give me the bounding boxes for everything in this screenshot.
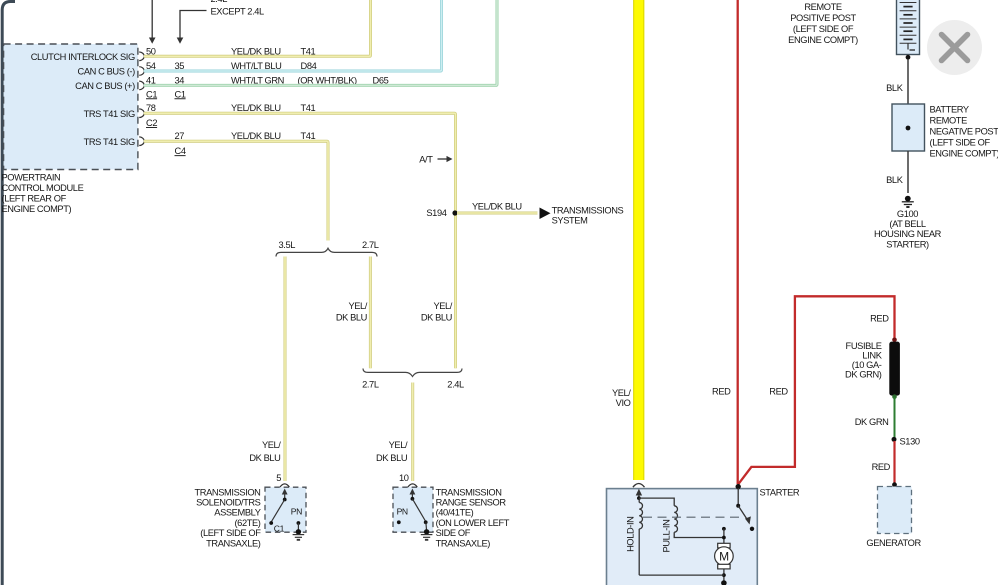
wire DK GRN xyxy=(894,397,896,438)
svg-text:TRANSAXLE): TRANSAXLE) xyxy=(436,538,491,548)
svg-text:CLUTCH INTERLOCK SIG: CLUTCH INTERLOCK SIG xyxy=(31,52,135,62)
svg-text:(LEFT SIDE OF: (LEFT SIDE OF xyxy=(930,137,991,147)
wire YEL/DK BLU pin 50 xyxy=(144,0,371,56)
PCM signal labels xyxy=(31,52,135,147)
svg-text:DK GRN): DK GRN) xyxy=(845,369,882,379)
label YEL/DK BLU to range sensor xyxy=(376,440,408,463)
wire RED to generator xyxy=(893,441,895,484)
svg-text:BATTERY: BATTERY xyxy=(930,104,969,114)
brace merge 2.7L/2.4L xyxy=(363,369,462,377)
PCM pin numbers xyxy=(146,46,186,156)
connector arc starter xyxy=(633,484,645,488)
linkage dashed xyxy=(643,516,740,518)
ground G100 xyxy=(902,196,914,207)
solenoid ground xyxy=(293,521,305,540)
svg-text:VIO: VIO xyxy=(616,398,631,408)
svg-text:GENERATOR: GENERATOR xyxy=(866,538,921,548)
arrow wire 2.4L xyxy=(149,0,156,44)
close button xyxy=(927,20,982,75)
svg-text:CAN C BUS (-): CAN C BUS (-) xyxy=(78,67,136,77)
label YEL/DK BLU branch right xyxy=(421,301,453,322)
svg-text:EXCEPT 2.4L: EXCEPT 2.4L xyxy=(211,6,265,16)
battery remote positive post xyxy=(897,0,920,60)
pull-in coil xyxy=(674,506,724,538)
PCM box xyxy=(4,44,138,170)
brace split 3.5L/2.7L xyxy=(276,248,377,256)
svg-text:RED: RED xyxy=(712,386,731,396)
node S130 xyxy=(892,436,920,446)
label YEL/VIO xyxy=(612,388,631,408)
svg-text:REMOTE: REMOTE xyxy=(804,2,842,12)
label G100 xyxy=(874,209,942,250)
svg-text:TRANSMISSION: TRANSMISSION xyxy=(436,487,502,497)
solenoid switch xyxy=(269,489,287,525)
svg-text:REMOTE: REMOTE xyxy=(930,115,968,125)
label battery remote negative post xyxy=(930,104,998,158)
svg-text:C4: C4 xyxy=(175,146,186,156)
svg-text:(AT BELL: (AT BELL xyxy=(889,219,925,229)
svg-text:ENGINE COMPT): ENGINE COMPT) xyxy=(930,148,998,158)
svg-text:YEL/: YEL/ xyxy=(612,388,631,398)
svg-text:5: 5 xyxy=(276,473,281,483)
svg-text:(62TE): (62TE) xyxy=(234,518,260,528)
starter switch xyxy=(736,484,755,531)
svg-text:A/T: A/T xyxy=(419,155,433,165)
range sensor ground xyxy=(421,522,433,540)
svg-text:RED: RED xyxy=(769,386,788,396)
svg-text:G100: G100 xyxy=(897,209,918,219)
transmission range sensor box xyxy=(393,487,433,532)
svg-text:DK BLU: DK BLU xyxy=(336,313,367,323)
wire labels rows xyxy=(231,46,389,141)
svg-text:(LEFT SIDE OF: (LEFT SIDE OF xyxy=(793,24,854,34)
svg-text:C1: C1 xyxy=(175,89,186,99)
svg-text:HOLD-IN: HOLD-IN xyxy=(626,516,636,551)
label transmission range sensor xyxy=(436,487,510,548)
svg-text:RANGE SENSOR: RANGE SENSOR xyxy=(436,498,507,508)
thick wire YEL/VIO xyxy=(633,0,644,480)
svg-text:YEL/: YEL/ xyxy=(262,440,281,450)
wire YEL/DK BLU pin 78 to S194 xyxy=(144,113,456,368)
svg-text:SYSTEM: SYSTEM xyxy=(552,215,588,225)
svg-text:2.7L: 2.7L xyxy=(362,240,379,250)
svg-text:NEGATIVE POST: NEGATIVE POST xyxy=(930,126,998,136)
svg-text:TRS T41 SIG: TRS T41 SIG xyxy=(84,137,135,147)
svg-text:PN: PN xyxy=(291,507,302,517)
svg-text:STARTER): STARTER) xyxy=(886,239,929,249)
svg-text:SIDE OF: SIDE OF xyxy=(436,528,471,538)
svg-text:(40/41TE): (40/41TE) xyxy=(436,508,474,518)
svg-text:TRS T41 SIG: TRS T41 SIG xyxy=(84,109,135,119)
battery remote negative post box xyxy=(892,104,925,151)
svg-text:PULL-IN: PULL-IN xyxy=(661,520,671,553)
svg-text:C1: C1 xyxy=(146,89,157,99)
svg-text:ENGINE COMPT): ENGINE COMPT) xyxy=(788,35,858,45)
label remote positive post xyxy=(788,2,858,45)
wire RED to fusible link xyxy=(738,296,895,484)
svg-text:2.4L: 2.4L xyxy=(211,0,228,4)
svg-text:3.5L: 3.5L xyxy=(279,240,296,250)
PCM pin arcs xyxy=(139,52,144,146)
starter box xyxy=(607,489,758,585)
svg-text:POWERTRAIN: POWERTRAIN xyxy=(2,173,61,183)
starter wire to pull-in xyxy=(639,498,674,506)
transmissions system arrow xyxy=(540,205,624,225)
svg-text:S194: S194 xyxy=(426,208,446,218)
svg-text:(LEFT SIDE OF: (LEFT SIDE OF xyxy=(200,528,261,538)
svg-text:M: M xyxy=(719,549,729,563)
wire battery positive RED xyxy=(737,0,739,484)
wire branch 2.7L xyxy=(369,257,372,369)
wire BLK upper xyxy=(886,59,908,104)
A/T arrow xyxy=(419,155,452,165)
svg-text:TRANSAXLE): TRANSAXLE) xyxy=(206,538,261,548)
svg-text:YEL/: YEL/ xyxy=(433,301,452,311)
wire YEL/DK BLU pin 27 xyxy=(144,141,328,240)
wire branch 3.5L xyxy=(284,257,287,482)
label YEL/DK BLU to solenoid xyxy=(249,440,281,463)
svg-text:STARTER: STARTER xyxy=(760,488,800,498)
svg-text:YEL/: YEL/ xyxy=(348,301,367,311)
svg-text:10: 10 xyxy=(399,473,409,483)
svg-text:POSITIVE POST: POSITIVE POST xyxy=(790,13,856,23)
arrow wire EXCEPT 2.4L xyxy=(177,11,207,44)
svg-text:(LEFT REAR OF: (LEFT REAR OF xyxy=(2,194,67,204)
svg-text:ENGINE COMPT): ENGINE COMPT) xyxy=(2,204,72,214)
transmission solenoid box xyxy=(265,487,306,532)
svg-text:BLK: BLK xyxy=(886,83,904,93)
node S194 xyxy=(426,208,457,218)
svg-text:ASSEMBLY: ASSEMBLY xyxy=(214,508,260,518)
wire BLK lower xyxy=(886,151,908,193)
svg-text:HOUSING NEAR: HOUSING NEAR xyxy=(874,229,942,239)
svg-text:CAN C BUS (+): CAN C BUS (+) xyxy=(75,81,135,91)
svg-text:YEL/DK BLU: YEL/DK BLU xyxy=(472,202,522,212)
svg-text:TRANSMISSIONS: TRANSMISSIONS xyxy=(552,205,624,215)
svg-text:2.4L: 2.4L xyxy=(447,379,464,389)
svg-text:(ON LOWER LEFT: (ON LOWER LEFT xyxy=(436,518,510,528)
svg-text:DK BLU: DK BLU xyxy=(376,453,407,463)
wire WHT/LT GRN CAN C xyxy=(144,0,497,85)
wire S194 to transmissions xyxy=(457,212,538,215)
svg-text:SOLENOID/TRS: SOLENOID/TRS xyxy=(196,498,261,508)
starter feed arrow xyxy=(636,489,642,500)
wire WHT/LT BLU CAN C xyxy=(144,0,442,71)
PCM label POWERTRAIN CONTROL MODULE xyxy=(2,173,84,215)
svg-text:S130: S130 xyxy=(900,436,920,446)
svg-text:DK BLU: DK BLU xyxy=(421,313,452,323)
connector arc range sensor xyxy=(408,484,417,487)
label YEL/DK BLU branch left xyxy=(336,301,368,322)
range sensor switch xyxy=(410,489,428,525)
svg-text:C2: C2 xyxy=(146,118,157,128)
fusible link xyxy=(889,338,900,400)
svg-text:DK BLU: DK BLU xyxy=(249,453,280,463)
label transmission solenoid xyxy=(195,487,262,548)
connector arc solenoid xyxy=(280,484,289,487)
svg-text:PN: PN xyxy=(397,507,408,517)
svg-text:CONTROL MODULE: CONTROL MODULE xyxy=(2,183,84,193)
svg-text:TRANSMISSION: TRANSMISSION xyxy=(195,487,261,497)
starter motor M xyxy=(715,527,734,585)
starter bottom rail xyxy=(639,574,724,576)
svg-text:2.7L: 2.7L xyxy=(362,379,379,389)
svg-text:C1: C1 xyxy=(274,524,285,534)
svg-text:RED: RED xyxy=(872,462,891,472)
svg-text:BLK: BLK xyxy=(886,175,904,185)
generator box xyxy=(878,482,912,533)
label fusible link xyxy=(845,341,883,379)
page left border xyxy=(2,2,15,585)
svg-text:YEL/: YEL/ xyxy=(389,440,408,450)
hold-in coil xyxy=(639,498,642,575)
wire merged to range sensor xyxy=(411,383,414,482)
svg-text:RED: RED xyxy=(870,314,889,324)
svg-text:DK GRN: DK GRN xyxy=(855,417,889,427)
range sensor contact dot xyxy=(397,520,401,524)
